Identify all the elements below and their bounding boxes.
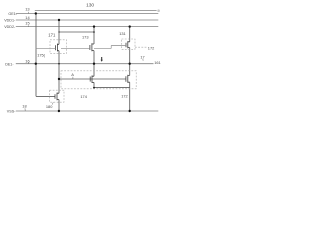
svg-text:17: 17 — [140, 55, 144, 60]
node dot D-L4 — [129, 63, 131, 65]
bus line VDD2 — [16, 26, 159, 28]
transistor 174 — [90, 76, 94, 84]
gate bus wire — [36, 46, 126, 49]
node dot C-w32 — [93, 31, 95, 33]
svg-text:172: 172 — [121, 94, 128, 99]
wire A to gate of transistor 174L — [36, 95, 55, 97]
svg-text:DE1-: DE1- — [5, 62, 14, 66]
bus line GE1 — [16, 13, 159, 15]
reference line 130 — [35, 10, 157, 12]
node dot B-VSS — [58, 110, 60, 112]
dashed box 174L — [50, 90, 65, 102]
svg-text:18: 18 — [22, 103, 26, 108]
node dot L2-B — [58, 19, 60, 21]
node dot L1-A — [35, 12, 37, 14]
wire DE1 output line — [16, 63, 154, 65]
dashed box driver block — [61, 71, 136, 89]
node dot B-L4 — [58, 63, 60, 65]
node dot B node A wire — [58, 78, 60, 80]
wire C bottom to D — [94, 87, 130, 89]
end blob of reference line 130 — [157, 9, 160, 12]
transistor 172b — [126, 75, 130, 83]
wire vertical B — [58, 20, 60, 111]
svg-text:VDD1-: VDD1- — [4, 19, 16, 23]
node dot C bottom — [93, 87, 95, 89]
node marker arrow on output line — [101, 57, 103, 62]
wire B to C below VDD2 — [59, 31, 94, 33]
svg-text:16: 16 — [25, 58, 29, 63]
svg-text:173: 173 — [82, 34, 89, 39]
dashed box 171 — [50, 40, 67, 54]
junction dots — [35, 12, 131, 112]
transistor 173 — [90, 43, 94, 51]
svg-text:175(: 175( — [37, 53, 45, 58]
svg-text:GE1-: GE1- — [8, 12, 17, 16]
svg-text:15: 15 — [25, 21, 29, 26]
svg-text:180: 180 — [46, 104, 53, 109]
svg-text:13: 13 — [25, 6, 29, 11]
svg-text:131: 131 — [119, 31, 126, 36]
bus line VSS — [16, 110, 159, 112]
bus line VDD1 — [16, 19, 159, 21]
transistor 172 — [126, 41, 130, 48]
node dot B-w32 — [58, 31, 59, 32]
svg-text:130: 130 — [86, 3, 94, 9]
svg-text:A: A — [71, 72, 74, 77]
node dot C-L4 — [93, 63, 95, 65]
svg-text:174: 174 — [80, 94, 87, 99]
wire vertical A — [35, 14, 37, 97]
node dot A-L4 — [35, 63, 37, 65]
svg-text:VSS-: VSS- — [7, 109, 16, 113]
wire vertical C — [93, 27, 95, 88]
svg-text:VDD2-: VDD2- — [4, 25, 16, 29]
svg-text:161: 161 — [154, 60, 161, 65]
node dot L3-D — [129, 25, 131, 27]
transistor 174L bottom left — [55, 93, 59, 101]
dashed box 172 — [122, 39, 148, 49]
wire vertical D — [129, 27, 131, 111]
transistor 171 — [56, 44, 60, 52]
node dot L3-C — [93, 25, 95, 27]
node dot D-VSS — [129, 110, 131, 112]
wire node A horizontal — [59, 78, 126, 80]
svg-text:171: 171 — [48, 32, 56, 37]
svg-text:172: 172 — [148, 46, 155, 51]
